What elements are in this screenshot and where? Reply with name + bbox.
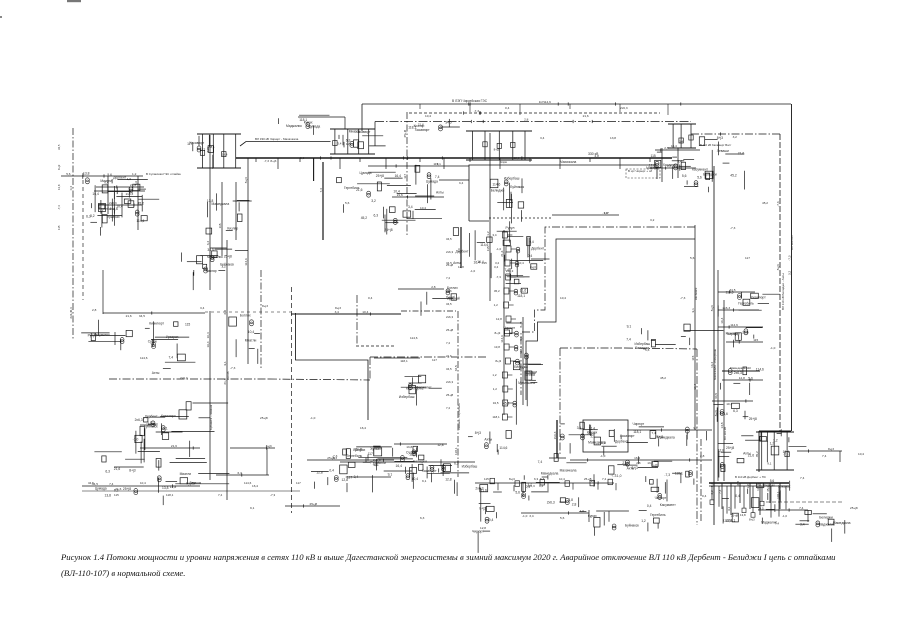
wire khas link2 [650,164,696,170]
svg-text:118,1: 118,1 [517,294,525,298]
svg-text:25+j8: 25+j8 [446,263,454,267]
svg-text:10,4: 10,4 [559,477,565,481]
svg-text:Хасавюрт: Хасавюрт [422,469,437,473]
wire y197 [392,193,444,199]
wire x695 [691,225,695,430]
svg-text:118,1: 118,1 [454,447,458,455]
zone v x261 [260,270,262,370]
svg-text:34,5: 34,5 [57,144,61,150]
svg-text:5,6: 5,6 [770,479,775,483]
svg-text:114,6: 114,6 [756,483,760,491]
substation cluster 145 [311,465,348,492]
svg-text:1,2: 1,2 [493,387,498,391]
svg-text:9,1: 9,1 [627,325,632,329]
svg-text:2x6,3: 2x6,3 [553,431,557,439]
svg-text:8+j3: 8+j3 [509,477,515,481]
wire [230,444,275,450]
zone BL step [369,357,371,380]
wire dark vertical x323 [319,162,323,240]
svg-text:13,8: 13,8 [406,445,412,449]
wire bottom 1 [521,509,589,518]
svg-text:Избербаш: Избербаш [462,464,478,468]
svg-text:2x6,3: 2x6,3 [446,250,453,254]
svg-text:-7,3: -7,3 [496,275,502,279]
svg-text:ВЛ 330 кВ Чирюрт - Махачкала: ВЛ 330 кВ Чирюрт - Махачкала [255,137,299,141]
svg-text:3,4: 3,4 [200,306,205,310]
substation cluster 125 [718,291,780,317]
svg-text:16,4: 16,4 [206,341,210,347]
wire bridge [307,456,394,462]
wire khas link1 [655,146,700,152]
svg-text:0,4: 0,4 [368,296,373,300]
bus drop 3 [339,158,341,169]
wire miatli v2 [107,176,109,214]
svg-text:Кизилюрт: Кизилюрт [751,296,766,300]
svg-text:Маджалис: Маджалис [416,386,432,390]
svg-text:45,2: 45,2 [755,451,759,457]
svg-text:8+j3: 8+j3 [717,136,723,140]
svg-text:-7,3: -7,3 [332,454,338,458]
svg-text:12,8: 12,8 [445,478,452,482]
svg-text:6,3: 6,3 [114,488,119,492]
svg-text:Леваши: Леваши [717,149,729,153]
substation cluster 112 [490,177,524,224]
svg-text:115: 115 [218,223,222,228]
wire chiryurt down2 [235,182,237,240]
substation cluster 143 [229,314,260,364]
svg-text:9,1: 9,1 [250,506,255,510]
svg-text:118,1: 118,1 [727,518,735,522]
bus drop 10 [529,158,531,162]
svg-text:114,6: 114,6 [500,335,504,343]
svg-text:1,2: 1,2 [494,303,499,307]
substation cluster 606 [718,436,761,478]
substation cluster 103 [145,321,196,375]
svg-text:Белиджи: Белиджи [819,516,833,520]
svg-text:25+j8: 25+j8 [749,417,757,421]
svg-text:6,3: 6,3 [733,409,738,413]
svg-text:-1,0: -1,0 [770,346,776,350]
svg-text:10,4: 10,4 [420,206,426,210]
svg-text:3,4: 3,4 [677,160,682,164]
svg-text:0,4: 0,4 [505,106,510,110]
substation box Dag Ogni [583,420,628,452]
svg-text:Ботлих: Ботлих [240,314,251,318]
svg-text:Чирюрт: Чирюрт [472,530,484,534]
svg-text:-7,3: -7,3 [264,159,270,163]
substation cluster 401 [92,179,159,213]
svg-text:21,6: 21,6 [622,461,629,465]
svg-text:21,6: 21,6 [356,188,363,192]
svg-text:10,4: 10,4 [783,450,790,454]
derbent stub 4 [746,483,750,509]
wire right inner vertical [776,134,780,431]
substation cluster 115 [503,323,543,425]
bus dash mid [205,311,291,313]
bus drop 2 [299,158,301,162]
wire lb [140,444,200,450]
svg-text:13,8: 13,8 [610,136,616,140]
svg-text:6,3: 6,3 [238,471,243,475]
svg-text:16,4: 16,4 [474,260,481,264]
svg-text:2x6,3: 2x6,3 [446,380,453,384]
bus drop 6 [419,158,421,162]
substation cluster 128 [713,403,757,422]
wire corner right bottom [759,430,791,432]
branch m2 [718,306,759,312]
svg-text:5,6: 5,6 [345,201,350,205]
svg-text:Кизилюрт: Кизилюрт [149,322,164,326]
svg-text:Миатли: Миатли [180,472,192,476]
svg-text:-1,0: -1,0 [126,177,132,181]
substation cluster 409 [135,414,176,464]
svg-text:115: 115 [484,477,489,481]
svg-text:9,1: 9,1 [693,426,698,430]
svg-text:8+j3: 8+j3 [475,431,481,435]
svg-text:117: 117 [403,174,407,179]
svg-text:45,2: 45,2 [660,376,666,380]
bus drop 7 [443,158,445,169]
svg-text:Мамедкала: Мамедкала [657,436,675,440]
svg-text:8+j3: 8+j3 [519,321,523,327]
svg-text:Цумада: Цумада [360,171,372,175]
wire khas v1 [661,148,663,182]
bus derbent v3 [720,300,724,481]
svg-text:2x6,3: 2x6,3 [135,418,143,422]
svg-text:7,4: 7,4 [799,506,804,510]
bus bottom link [570,456,712,465]
svg-text:45,2: 45,2 [762,201,768,205]
svg-text:Гергебиль: Гергебиль [650,513,666,517]
svg-text:Апрв: Апрв [500,160,507,164]
wire v x248 [244,158,248,364]
svg-text:-1,0: -1,0 [496,247,502,251]
svg-text:2x6,3: 2x6,3 [620,106,628,110]
scan mark top [67,0,81,2]
wire Khasavyurt east [691,132,780,138]
svg-text:115: 115 [723,519,728,523]
substation cluster 607 [760,429,807,462]
wire tick x557 [549,457,566,459]
svg-text:5,6: 5,6 [697,175,702,179]
branch m1 [718,288,755,294]
svg-text:Леваши - Гергебиль: Леваши - Гергебиль [457,403,461,430]
substation cluster 141 [86,200,105,236]
svg-text:12,8: 12,8 [718,448,725,452]
svg-text:7,4: 7,4 [718,489,722,494]
svg-text:114,6: 114,6 [140,356,148,360]
svg-text:-1,0: -1,0 [616,474,622,478]
svg-text:2,8: 2,8 [524,117,529,121]
bus 330kV third [375,117,691,126]
svg-text:Кизляр: Кизляр [414,124,425,128]
svg-text:8+j3: 8+j3 [710,305,714,311]
substation cluster 136 [646,152,691,179]
svg-text:5,6: 5,6 [560,516,565,520]
svg-text:25+j8: 25+j8 [123,487,131,491]
svg-text:Курах: Курах [588,514,597,518]
bus v x523 [519,317,523,405]
labels row central [446,261,536,273]
svg-text:3,2: 3,2 [527,482,532,486]
svg-text:12,8: 12,8 [458,265,464,269]
svg-text:7,4: 7,4 [218,493,223,497]
svg-text:114,6: 114,6 [244,258,248,266]
svg-text:118,1: 118,1 [166,493,174,497]
svg-text:Миатли: Миатли [349,129,361,133]
svg-text:9,1: 9,1 [437,162,442,166]
bus drop 8 [469,158,471,162]
zone v mid [356,295,358,345]
wire drop x375 [374,122,376,147]
substation cluster 133 [339,129,386,148]
substation cluster 149 [83,171,127,184]
svg-text:12,8: 12,8 [496,317,502,321]
svg-text:16,4: 16,4 [720,317,724,323]
svg-text:ВЛ 110 кВ Белиджи - Ахты: ВЛ 110 кВ Белиджи - Ахты [781,273,785,310]
svg-text:Цумада: Цумада [426,179,438,183]
substation cluster 119 [472,485,502,553]
svg-text:Ахты: Ахты [152,371,160,375]
svg-text:7,4: 7,4 [446,406,450,410]
derbent stub 3 [736,481,740,503]
derbent stub 2 [727,483,731,515]
svg-text:117: 117 [745,256,750,260]
botlikh labels [88,481,301,497]
wire dash br [766,501,842,503]
svg-text:-7,3: -7,3 [603,211,609,215]
svg-text:114,6: 114,6 [726,291,734,295]
substation cluster Касумкент [639,476,677,511]
svg-text:8+j3: 8+j3 [495,359,501,363]
svg-text:2,8: 2,8 [92,308,97,312]
svg-text:118,1: 118,1 [675,471,683,475]
wire x510 [509,268,511,301]
svg-text:3,4: 3,4 [408,205,413,209]
wire VL330 Chiryurt label line [240,142,331,147]
svg-text:Гергебиль: Гергебиль [738,301,754,305]
svg-text:Буйнакск: Буйнакск [220,263,234,267]
wire right outer vertical [787,104,791,431]
svg-text:0,4: 0,4 [529,240,534,244]
substation cluster 132 [421,286,460,316]
svg-text:8+j3: 8+j3 [651,464,657,468]
substation cluster 105 [156,459,229,493]
svg-text:8+j3: 8+j3 [262,304,268,308]
svg-text:25+j8: 25+j8 [384,228,392,232]
svg-text:16,4: 16,4 [671,144,677,148]
svg-text:5,6: 5,6 [601,441,606,445]
top drop 5 [667,104,669,115]
svg-text:16,4: 16,4 [634,456,640,460]
derbent stub 5 [756,483,760,515]
svg-text:8+j3: 8+j3 [270,159,276,163]
top drop 2 [519,104,521,115]
svg-text:21,6: 21,6 [114,467,121,471]
svg-text:25+j8: 25+j8 [731,514,739,518]
svg-text:2x6,3: 2x6,3 [506,269,514,273]
svg-text:Миатли: Миатли [374,461,386,465]
svg-text:34,5: 34,5 [446,302,452,306]
substation cluster 122 [633,422,707,446]
substation cluster 140 [748,479,791,502]
substation cluster Гергебиль [346,454,427,492]
svg-text:Буйнакск - Леваши: Буйнакск - Леваши [209,404,213,430]
svg-text:1,2: 1,2 [132,172,137,176]
substation cluster 120 [588,511,666,536]
substation cluster Белиджи [795,510,850,542]
wire y289 [398,285,444,289]
svg-text:13,8: 13,8 [740,513,746,517]
svg-text:25+j8: 25+j8 [310,502,318,506]
svg-text:115: 115 [651,154,656,158]
bus drop 13 [619,158,621,169]
svg-text:В 110 кВ Хасавюрт Вост: В 110 кВ Хасавюрт Вост [700,143,732,147]
svg-text:В Сулакская ГЭС отпайка: В Сулакская ГЭС отпайка [146,172,181,176]
svg-text:Белиджи: Белиджи [491,188,505,192]
svg-text:6,3: 6,3 [420,516,425,520]
svg-text:117: 117 [153,423,158,427]
svg-text:21,6: 21,6 [446,354,452,358]
svg-text:Курах: Курах [304,120,313,124]
bus botlikh 2 [82,490,300,492]
svg-text:21,6: 21,6 [397,193,403,197]
svg-text:25+j8: 25+j8 [403,130,407,138]
svg-text:21,6: 21,6 [446,289,452,293]
svg-text:25+j8: 25+j8 [354,447,362,451]
left rotated labels [57,144,61,230]
svg-text:Избербаш: Избербаш [399,395,415,399]
svg-text:6,3: 6,3 [540,477,545,481]
svg-text:Миатли: Миатли [245,339,257,343]
svg-text:ВЛ 110-107: ВЛ 110-107 [790,235,794,250]
svg-text:2x6,3: 2x6,3 [734,371,742,375]
svg-text:Хасавюрт: Хасавюрт [620,434,635,438]
bus rows right [627,426,712,435]
svg-text:Каспийск: Каспийск [694,287,698,300]
substation cluster Буйнакск [133,402,229,457]
svg-text:3,4: 3,4 [206,241,210,246]
svg-text:10,4: 10,4 [206,332,210,338]
wire dark x557 [553,420,557,458]
substation cluster 106 [95,484,230,505]
svg-text:-1,0: -1,0 [133,438,139,442]
svg-text:6,3: 6,3 [223,310,227,315]
svg-text:7,4: 7,4 [626,338,631,342]
svg-text:Хунзах: Хунзах [370,447,381,451]
substation cluster 108 [337,171,411,235]
zone box R_A [469,165,657,221]
branch AT thick [722,370,760,372]
svg-text:115: 115 [57,225,61,230]
svg-text:7,4: 7,4 [319,188,323,193]
bus bottom center [475,479,614,488]
svg-text:3,4: 3,4 [335,310,340,314]
svg-text:10,4: 10,4 [248,330,255,334]
zone corner C [296,313,369,420]
svg-text:9,1: 9,1 [767,462,772,466]
wire box-left extension y166 [368,162,469,168]
svg-text:9,1: 9,1 [223,361,227,366]
wire LEP35 y180 [439,180,469,185]
svg-text:Мамедкала 110: Мамедкала 110 [730,366,751,370]
branch m6 [712,399,753,405]
svg-text:21,6: 21,6 [500,250,504,256]
svg-text:21,6: 21,6 [738,151,745,155]
svg-text:8+j3: 8+j3 [244,177,248,183]
substation cluster 117 [394,443,443,482]
zone S5 h [560,347,625,349]
svg-text:5,6: 5,6 [66,172,71,176]
svg-text:-1,0: -1,0 [310,416,316,420]
zone v x458 [454,311,458,477]
svg-text:16,4: 16,4 [360,426,366,430]
svg-text:45,2: 45,2 [766,486,770,492]
svg-text:34,5: 34,5 [207,248,214,252]
svg-text:1,2: 1,2 [492,373,497,377]
substation cluster 410 [346,446,416,465]
zone dash y311 [401,310,456,312]
svg-text:0,4: 0,4 [679,140,684,144]
svg-text:Махачкала: Махачкала [518,381,535,385]
svg-text:118,1: 118,1 [492,415,500,419]
zone left v2 [82,173,84,300]
derbent stub 1 [718,483,722,509]
svg-text:-7,3: -7,3 [787,255,791,261]
bus to center [291,310,401,316]
svg-text:34,5: 34,5 [446,237,452,241]
svg-text:3,4: 3,4 [800,523,805,527]
svg-text:7,4: 7,4 [775,522,779,526]
svg-text:-7,3: -7,3 [680,296,686,300]
svg-text:Ирганай: Ирганай [447,297,460,301]
zone dash mid [356,345,396,347]
svg-text:-7,3: -7,3 [611,474,617,478]
wire miatli row2 [98,201,142,207]
svg-text:0,4: 0,4 [528,254,533,258]
svg-text:7,4: 7,4 [169,355,174,359]
svg-text:Маджалис: Маджалис [286,124,302,128]
svg-text:Мамедкала: Мамедкала [833,521,851,525]
svg-text:5,6: 5,6 [192,481,197,485]
svg-text:5,6: 5,6 [645,348,650,352]
scan dot left [0,16,2,18]
svg-text:-7,3: -7,3 [270,493,276,497]
svg-text:Касумкент: Касумкент [692,168,708,172]
wire miatli v [134,176,138,230]
substation cluster 204 [547,497,587,511]
svg-text:25+j8: 25+j8 [376,174,384,178]
svg-text:7,4: 7,4 [538,460,543,464]
svg-text:-7,3: -7,3 [57,205,61,210]
svg-text:3,2: 3,2 [733,135,738,139]
substation cluster 134 [279,115,330,135]
zone R_A bottom left [469,220,489,222]
substation cluster 144 [187,135,214,169]
svg-text:10,4: 10,4 [560,296,566,300]
svg-text:114,6: 114,6 [410,336,418,340]
svg-text:8+j3: 8+j3 [57,164,61,170]
svg-text:7,4: 7,4 [602,477,607,481]
svg-text:-7,3: -7,3 [474,109,480,113]
svg-text:3,2: 3,2 [90,214,95,218]
substation cluster 107 [206,193,252,234]
substation cluster 201 [343,448,380,470]
substation cluster 126 [726,328,763,348]
svg-text:1,2: 1,2 [641,519,646,523]
branch m3 [718,323,763,329]
svg-text:6,3: 6,3 [374,213,379,217]
